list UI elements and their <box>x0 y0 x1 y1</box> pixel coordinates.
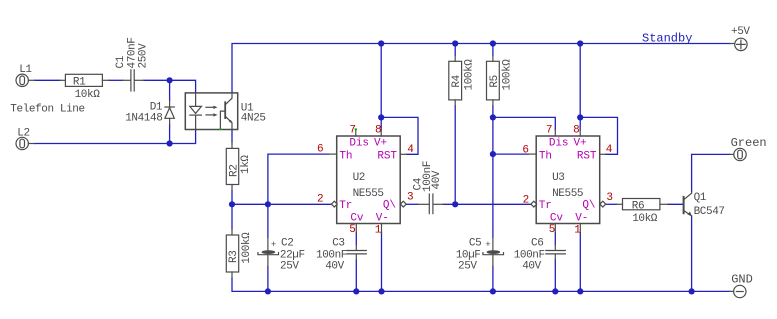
svg-text:C5: C5 <box>469 238 481 250</box>
svg-text:Q1: Q1 <box>694 192 707 204</box>
svg-text:RST: RST <box>377 150 397 162</box>
svg-text:C6: C6 <box>531 237 543 249</box>
svg-text:Th: Th <box>339 150 352 162</box>
svg-text:R1: R1 <box>73 76 86 88</box>
svg-text:2: 2 <box>523 194 529 206</box>
svg-text:V-: V- <box>575 212 588 224</box>
svg-text:Th: Th <box>539 150 552 162</box>
svg-text:Cv: Cv <box>350 212 364 224</box>
svg-text:4N25: 4N25 <box>241 113 266 125</box>
svg-text:U3: U3 <box>552 172 564 184</box>
svg-text:L2: L2 <box>17 128 29 140</box>
svg-text:40V: 40V <box>522 261 541 273</box>
svg-text:V+: V+ <box>374 137 387 149</box>
svg-text:250V: 250V <box>137 43 149 69</box>
svg-text:R4: R4 <box>451 74 463 87</box>
svg-text:1N4148: 1N4148 <box>125 113 162 125</box>
svg-text:Tr: Tr <box>539 200 552 212</box>
svg-text:40V: 40V <box>325 261 344 273</box>
svg-text:4: 4 <box>407 144 414 156</box>
svg-text:100nF: 100nF <box>316 250 347 262</box>
svg-text:25V: 25V <box>458 261 477 273</box>
svg-text:7: 7 <box>546 124 552 136</box>
svg-text:V-: V- <box>376 212 389 224</box>
svg-text:7: 7 <box>349 124 355 136</box>
svg-text:6: 6 <box>522 144 528 156</box>
svg-text:2: 2 <box>317 194 323 206</box>
svg-text:C3: C3 <box>332 237 344 249</box>
svg-text:V+: V+ <box>574 137 587 149</box>
svg-text:NE555: NE555 <box>552 188 583 200</box>
svg-text:Q\: Q\ <box>383 199 396 211</box>
svg-text:5: 5 <box>349 224 355 236</box>
svg-text:1: 1 <box>574 225 581 237</box>
svg-text:C1: C1 <box>115 55 127 68</box>
svg-text:RST: RST <box>577 150 597 162</box>
svg-text:8: 8 <box>375 124 381 136</box>
svg-text:Green: Green <box>731 136 767 150</box>
svg-text:3: 3 <box>606 192 612 204</box>
svg-text:Dis: Dis <box>349 137 369 149</box>
svg-text:100kΩ: 100kΩ <box>502 59 514 91</box>
svg-text:GND: GND <box>731 273 753 287</box>
svg-text:D1: D1 <box>150 101 163 113</box>
svg-text:BC547: BC547 <box>694 206 725 218</box>
svg-text:L1: L1 <box>19 64 32 76</box>
svg-text:R5: R5 <box>489 75 501 87</box>
svg-text:6: 6 <box>317 143 323 155</box>
svg-text:22µF: 22µF <box>280 250 305 262</box>
svg-text:C2: C2 <box>281 238 293 250</box>
svg-text:+5V: +5V <box>731 26 750 38</box>
svg-text:100nF: 100nF <box>514 250 545 262</box>
svg-text:10µF: 10µF <box>456 250 481 262</box>
svg-text:4: 4 <box>606 144 613 156</box>
svg-text:Standby: Standby <box>642 32 692 46</box>
svg-text:Cv: Cv <box>550 212 564 224</box>
svg-text:Tr: Tr <box>339 200 352 212</box>
svg-text:NE555: NE555 <box>353 188 384 200</box>
svg-text:Telefon Line: Telefon Line <box>10 103 84 115</box>
svg-text:1: 1 <box>375 225 382 237</box>
svg-text:R6: R6 <box>632 200 644 212</box>
svg-text:100kΩ: 100kΩ <box>463 59 475 91</box>
svg-text:1kΩ: 1kΩ <box>240 155 252 174</box>
svg-text:5: 5 <box>549 224 555 236</box>
svg-text:Q\: Q\ <box>582 199 595 211</box>
svg-text:100kΩ: 100kΩ <box>241 232 253 264</box>
svg-text:U2: U2 <box>353 172 365 184</box>
svg-text:Dis: Dis <box>549 137 569 149</box>
svg-text:+: + <box>271 240 276 250</box>
svg-text:R3: R3 <box>228 251 240 263</box>
svg-text:25V: 25V <box>280 261 299 273</box>
svg-text:+: + <box>485 240 490 250</box>
svg-text:10kΩ: 10kΩ <box>632 213 658 225</box>
svg-text:3: 3 <box>407 192 413 204</box>
svg-text:40V: 40V <box>431 170 443 189</box>
svg-text:8: 8 <box>573 124 579 136</box>
svg-text:R2: R2 <box>229 165 241 177</box>
svg-text:10kΩ: 10kΩ <box>75 89 101 101</box>
